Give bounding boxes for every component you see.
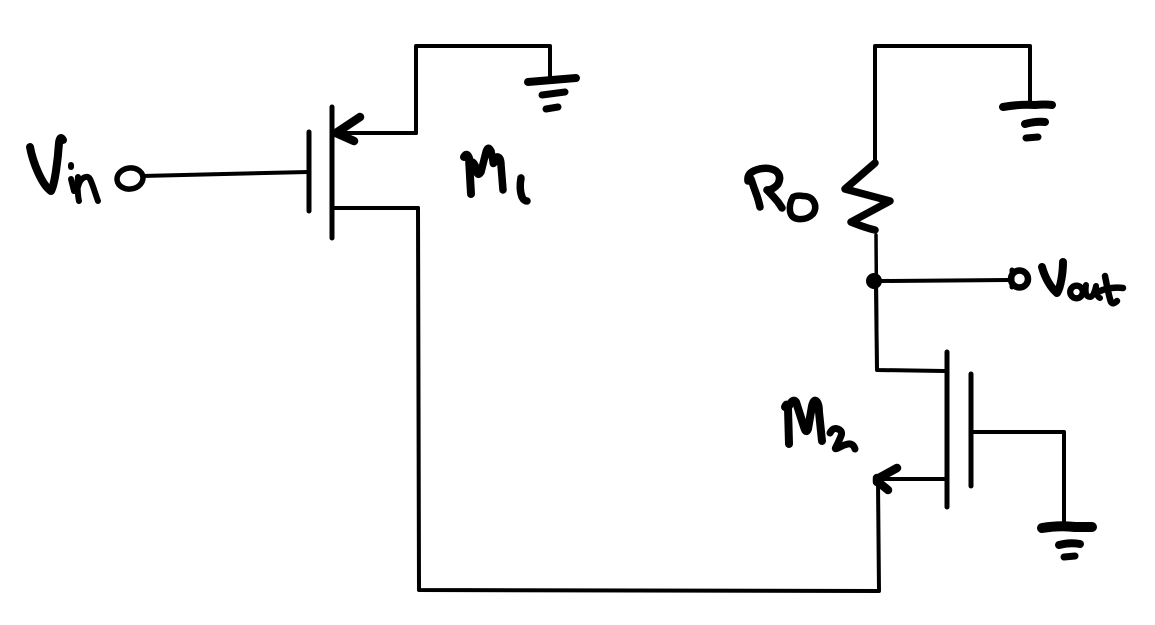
- label RD: [748, 168, 815, 219]
- label M2: [785, 401, 855, 449]
- wire M2 gate to ground: [973, 432, 1064, 522]
- wire top right to ground: [875, 46, 1030, 160]
- node Vout junction: [866, 273, 882, 289]
- ground at top right: [1003, 105, 1052, 139]
- wire M1 drain to ground: [416, 46, 550, 133]
- wire Vin terminal to M1 gate: [142, 172, 308, 176]
- wire node to M2 drain: [876, 289, 944, 371]
- ground at M2 gate: [1042, 526, 1092, 557]
- arrowhead at M2 source: [877, 468, 897, 490]
- terminal Vin: [116, 166, 145, 190]
- ground at M1 drain: [528, 78, 576, 109]
- wire node to Vout terminal: [882, 280, 1009, 281]
- label Vout: [1042, 262, 1123, 303]
- label Vin: [30, 138, 98, 201]
- resistor RD: [845, 163, 890, 370]
- terminal Vout: [1011, 270, 1028, 288]
- label M1: [464, 148, 527, 201]
- wire M1 source to M2 source (long bottom wire): [418, 208, 879, 591]
- transistor M1: [309, 107, 418, 238]
- transistor M2: [881, 352, 971, 507]
